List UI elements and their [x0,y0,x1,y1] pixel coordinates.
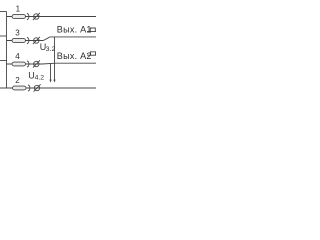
svg-text:Вых. А1: Вых. А1 [57,25,92,35]
svg-text:3.2: 3.2 [46,46,56,53]
svg-text:1: 1 [16,5,21,14]
svg-text:3: 3 [15,29,20,38]
svg-text:4.2: 4.2 [35,75,45,82]
svg-text:2: 2 [15,76,20,85]
svg-text:Вых. А2: Вых. А2 [57,51,92,61]
svg-text:4: 4 [15,52,20,61]
